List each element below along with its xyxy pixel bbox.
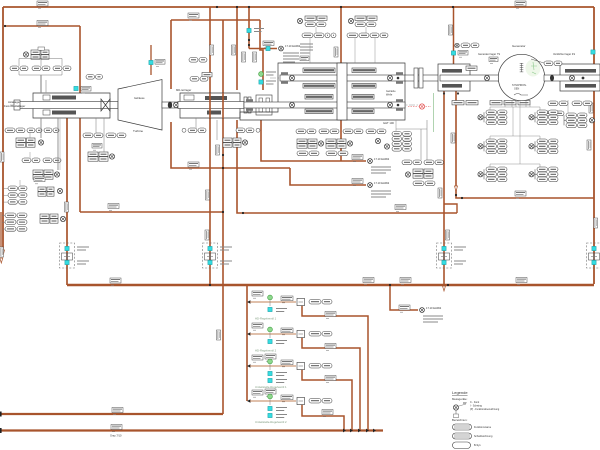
box cluster	[88, 152, 108, 161]
measuring point	[38, 140, 43, 145]
bus end tick	[0, 412, 2, 417]
pill pair (stack)	[5, 213, 27, 218]
immersion probe (green)	[259, 72, 264, 77]
svg-text:Verdichter lager 4S: Verdichter lager 4S	[553, 52, 575, 56]
pill pair (column stack)	[392, 137, 412, 142]
wire (vertical x260 with jog)	[260, 20, 263, 90]
generator top lead	[531, 59, 544, 63]
wire (turbine casing sensor)	[150, 45, 152, 75]
annotation: Tauchfuehler	[266, 72, 276, 75]
bearing bar	[259, 98, 263, 112]
svg-text:17.10 EH092: 17.10 EH092	[374, 157, 390, 161]
bearing pad (upper)	[205, 96, 227, 100]
svg-text:Turbine: Turbine	[133, 129, 143, 133]
junction	[242, 212, 244, 214]
svg-text:Welle: Welle	[386, 94, 393, 97]
pill pair row	[325, 33, 336, 38]
control valve unit 4 servo valve (green)	[268, 394, 273, 399]
valve solenoid converter (cyan)	[442, 246, 446, 250]
off-page arrow (x456)	[455, 186, 458, 192]
bearing hatch	[396, 108, 403, 111]
pill pair	[544, 61, 562, 66]
annotation	[276, 380, 287, 383]
wire label	[399, 305, 410, 312]
wire label (y430 bus)	[111, 425, 122, 432]
hydraulic valve assembly 1	[60, 243, 75, 268]
wire (vertical x210 valve spine)	[209, 7, 211, 285]
pill pair	[106, 133, 126, 138]
legend pill (double line)	[453, 424, 472, 430]
coupling hub	[168, 102, 172, 109]
wire label (valve 4 branch)	[322, 410, 333, 417]
coupling (bowtie)	[101, 99, 110, 111]
pill pair (mid bearing top)	[189, 58, 207, 63]
control valve unit 2 transducer pills	[309, 331, 332, 336]
control valve unit 1 servo valve (green)	[268, 295, 273, 300]
wire (vertical x341 lower)	[340, 120, 342, 161]
shaft (left end)	[15, 102, 118, 109]
annotation text	[371, 191, 391, 197]
sensor cluster (gen row2 c2)	[535, 139, 558, 154]
junction	[248, 6, 250, 8]
pill pair	[548, 101, 568, 106]
hydraulic valve assembly 4	[587, 243, 600, 268]
gearbox upper shaft	[280, 75, 405, 81]
svg-text:Legende: Legende	[452, 390, 468, 395]
sensor label box	[518, 101, 530, 105]
wire label (rotated left edge)	[0, 247, 4, 257]
sensor cluster (gen row3 c1)	[484, 167, 507, 182]
valve 2 signal bracket	[302, 337, 360, 430]
cluster tree lines	[19, 59, 62, 76]
bus arrow	[350, 429, 353, 433]
control valve unit 3 positioner box	[297, 362, 305, 369]
wire label (main bus)	[363, 278, 374, 285]
wire label (rotated right edge)	[594, 218, 598, 228]
bearing bar	[266, 98, 270, 112]
converter label	[458, 51, 468, 58]
junction	[452, 6, 454, 8]
coupling measuring point (exciter side)	[569, 75, 574, 80]
wire label (rotated)	[449, 25, 453, 35]
pill pair	[190, 77, 208, 82]
bearing pad	[565, 69, 596, 73]
measuring point	[242, 140, 247, 145]
wire label	[352, 155, 363, 162]
sensor cluster (gen row1 c2)	[535, 110, 558, 125]
branch wire (control valve unit 2)	[250, 333, 296, 335]
wire (horizontal y212 left)	[80, 211, 223, 213]
wire (left vertical)	[2, 7, 4, 250]
bus wire (horizontal y430)	[0, 429, 383, 431]
transducer pill pair (top-left row)	[53, 66, 71, 71]
pill pair	[326, 151, 348, 156]
cluster tree lines	[490, 100, 568, 167]
wire label	[108, 204, 119, 211]
converter (cyan)	[247, 28, 251, 32]
cluster leads	[96, 118, 104, 152]
junction	[222, 211, 224, 213]
measuring point	[529, 115, 534, 120]
wire label	[188, 162, 199, 169]
shaft centerline (LP)	[10, 104, 420, 106]
wire label (valve 1 branch)	[325, 312, 336, 319]
bearing hatch	[396, 81, 403, 84]
bearing detail box	[43, 95, 50, 100]
measuring point	[347, 141, 352, 146]
wire (vertical x237 lower / horizontal y213)	[237, 120, 457, 213]
bearing hatch	[246, 108, 253, 111]
wire label	[352, 179, 363, 186]
legend MP leads	[454, 404, 467, 418]
wire label (rotated x444)	[446, 230, 450, 240]
wire (jog x457)	[444, 204, 457, 213]
main signal bus (horizontal y285)	[67, 284, 594, 286]
small label	[300, 56, 309, 63]
measuring point callout 0	[279, 46, 284, 51]
shaft centerline (HP/generator)	[270, 77, 600, 79]
wire label (control valve unit 4)	[252, 390, 263, 397]
converter label	[155, 60, 165, 67]
wire label	[515, 191, 526, 198]
pill pair	[305, 22, 326, 27]
turbine shaft	[162, 102, 178, 108]
wire label (rotated x594)	[589, 103, 593, 113]
shaft key	[397, 104, 400, 107]
converter (cyan)	[266, 46, 270, 50]
wire overlay (x210 across housing)	[209, 93, 211, 118]
generator base mark	[514, 94, 528, 96]
wire label (rotated)	[242, 52, 246, 62]
annotation text	[423, 316, 443, 322]
svg-text:B-Sys: B-Sys	[474, 444, 481, 447]
control valve unit 2 servo valve (green)	[268, 327, 273, 332]
transducer pill pair (top-left row)	[32, 66, 50, 71]
annotation	[254, 29, 264, 32]
annotation	[276, 408, 287, 411]
bearing pad (lower)	[52, 111, 76, 115]
converter (cyan)	[74, 86, 78, 90]
wire label (top bus right)	[515, 1, 526, 8]
sensor label box	[504, 101, 516, 105]
annotation	[276, 309, 287, 312]
legend pill (triple line)	[453, 433, 472, 439]
box cluster	[40, 214, 58, 223]
gear element	[303, 68, 335, 73]
svg-text:HD-Regelventil 2: HD-Regelventil 2	[255, 349, 277, 353]
bearing detail box	[43, 110, 50, 115]
sensor cluster (gen row3 c2)	[535, 167, 558, 182]
measuring point	[109, 154, 114, 159]
wire (vertical x456 / horizontal y198)	[456, 91, 594, 198]
junction	[457, 92, 459, 94]
pill pair (stack)	[8, 193, 27, 198]
cluster leads	[196, 118, 217, 140]
wire label	[188, 13, 199, 20]
converter label	[81, 87, 91, 94]
gear element	[305, 109, 333, 114]
wire (vertical x249)	[248, 7, 250, 49]
pill pair	[5, 128, 25, 133]
annotation	[276, 341, 287, 344]
svg-text:Schaltzeichnung: Schaltzeichnung	[474, 435, 493, 438]
cluster leads	[20, 118, 60, 186]
junction	[222, 154, 224, 156]
junction	[248, 39, 250, 41]
junction	[461, 197, 463, 199]
measuring point	[375, 138, 380, 143]
pill pair row	[347, 33, 369, 38]
junction	[447, 284, 449, 286]
small circle	[256, 128, 260, 132]
wire (vertical x80)	[79, 26, 81, 212]
sensor label box	[466, 101, 478, 105]
mid bearing housing	[180, 93, 240, 118]
measuring point	[23, 52, 28, 57]
sensor box	[466, 66, 477, 70]
box cluster	[16, 138, 35, 147]
bearing pad	[565, 84, 596, 88]
shaft through bearing A	[440, 75, 500, 81]
valve solenoid converter (cyan)	[208, 246, 212, 250]
bus arrow	[358, 429, 361, 433]
annotation	[276, 415, 287, 418]
svg-text:17.10 EH092: 17.10 EH092	[426, 306, 442, 310]
pill pair (stack)	[8, 200, 27, 205]
pill pair row	[370, 33, 388, 38]
box cluster	[305, 16, 327, 20]
measuring point	[478, 115, 483, 120]
coupling flange	[414, 68, 418, 88]
wire label	[265, 354, 276, 361]
coupling flange	[419, 68, 423, 88]
shaft end cap	[14, 100, 20, 110]
wire label (rotated x456)	[451, 133, 455, 143]
gear element	[352, 68, 376, 73]
gearbox input measuring point (upper)	[289, 75, 294, 80]
thrust bearing housing	[33, 93, 110, 118]
gear element	[352, 109, 374, 114]
converter (cyan)	[591, 50, 595, 54]
sensor cluster (gen row1 c1)	[484, 110, 507, 125]
wire label (rotated, x223)	[217, 330, 221, 340]
shaft key	[582, 77, 585, 80]
junction	[455, 194, 457, 196]
pill pair	[424, 160, 444, 165]
valve stem	[269, 400, 271, 406]
signal bus wire (top horizontal)	[3, 6, 594, 8]
converter (cyan)	[259, 80, 263, 84]
pill pair (column stack)	[392, 132, 412, 137]
pill pair (gearbox bottom row)	[319, 129, 339, 134]
svg-text:Generator lager 7S: Generator lager 7S	[478, 52, 500, 56]
gear element	[303, 84, 335, 89]
wire overlay (x223 across housing)	[222, 93, 224, 118]
bearing pad (upper)	[52, 96, 76, 100]
bus arrow	[343, 429, 346, 433]
wire label	[281, 360, 293, 367]
measuring point	[60, 216, 65, 221]
control valve unit 3 tap	[247, 364, 251, 368]
wire label (rotated, x210)	[205, 230, 209, 240]
bearing hatch	[246, 99, 253, 102]
generator bearing housing A	[438, 64, 470, 91]
wire label (rotated)	[210, 45, 214, 55]
converter (cyan)	[268, 307, 272, 311]
sensor label box	[490, 101, 502, 105]
wire label (control valve unit 1)	[252, 291, 263, 298]
pill pair (generator top)	[461, 43, 479, 48]
coupling measuring point	[173, 102, 178, 107]
junction	[222, 167, 224, 169]
generator G1	[498, 54, 544, 100]
pill pair	[402, 160, 422, 165]
generator winding symbol	[520, 63, 524, 72]
generator excitation zone (green tint)	[526, 60, 541, 77]
wire label (rotated x67)	[65, 202, 69, 212]
bearing hatch	[396, 72, 403, 75]
shaft through bearing B	[544, 75, 600, 81]
gearbox lower shaft	[244, 102, 405, 108]
pill pair	[43, 158, 61, 163]
pill pair (gearbox bottom row)	[366, 129, 386, 134]
pill pair (stack)	[5, 227, 27, 232]
valve annotation	[77, 247, 89, 250]
converter label	[263, 41, 274, 48]
measuring point (gearbox top 1)	[297, 18, 302, 23]
svg-text:Gehäuse: Gehäuse	[134, 96, 145, 100]
gear element	[352, 95, 374, 100]
small circle	[182, 128, 186, 132]
annotation: Lager- und Schwingstellen Fernmessung	[283, 53, 299, 62]
control valve unit 4 transducer pills	[309, 398, 332, 403]
wire label (rotated left edge)	[0, 152, 4, 162]
wire label	[281, 328, 293, 335]
shaft key	[397, 77, 400, 80]
wire (vertical x67, bearing signal)	[66, 118, 68, 285]
wire label (valve 3 branch)	[325, 376, 336, 383]
sensor box cluster (top left)	[31, 50, 49, 59]
wire (vertical x341 upper gearbox feed)	[340, 7, 342, 63]
wire (vertical x453 generator feed)	[453, 7, 455, 64]
wire label (top bus left)	[37, 1, 48, 8]
measuring point	[384, 144, 389, 149]
sensor label	[92, 144, 102, 151]
valve stem	[269, 333, 271, 339]
svg-text:(P) - Funktionsbezeichnung: (P) - Funktionsbezeichnung	[470, 408, 500, 411]
hydraulic valve assembly 2	[203, 243, 218, 268]
sensor label	[34, 177, 45, 184]
measuring point	[405, 172, 410, 177]
gear element	[305, 95, 333, 100]
pill pair	[413, 181, 435, 186]
branch wire (control valve unit 3)	[250, 365, 296, 367]
measuring point callout 1	[368, 159, 373, 164]
junction	[443, 92, 445, 94]
converter (cyan)	[268, 413, 272, 417]
wire label (control valve unit 3)	[252, 355, 263, 362]
cluster leads	[310, 27, 375, 63]
svg-text:Fest-/Radiallager: Fest-/Radiallager	[4, 104, 25, 108]
cluster header box	[38, 47, 45, 50]
wire (long vertical x223)	[222, 20, 224, 414]
wire (horizontal y20)	[171, 19, 260, 21]
bearing block	[256, 95, 272, 115]
svg-text:Umleitstelle-Regelventil 1: Umleitstelle-Regelventil 1	[255, 385, 287, 389]
bracket lines	[4, 189, 9, 203]
branch wire (control valve unit 1)	[250, 301, 296, 303]
valve solenoid converter (cyan)	[65, 246, 69, 250]
valve annotation	[77, 261, 89, 264]
svg-text:MP: MP	[463, 402, 467, 405]
coupling flange	[244, 97, 247, 113]
gearbox measuring point (lower right)	[387, 102, 392, 107]
converter (cyan)	[268, 378, 272, 382]
measuring point callout 3	[420, 308, 425, 313]
wire label (y414 bus)	[112, 408, 123, 415]
annotation	[276, 373, 287, 376]
svg-text:Bezeichnun:: Bezeichnun:	[452, 418, 468, 422]
bus arrow	[366, 429, 369, 433]
annotation text	[371, 167, 391, 173]
earthing brush (red)	[408, 104, 431, 109]
wire (second left horizontal)	[5, 25, 80, 27]
junction	[209, 284, 211, 286]
valve annotation	[454, 247, 466, 250]
measuring point	[529, 172, 534, 177]
measuring point	[57, 188, 62, 193]
gearbox casing	[240, 63, 405, 120]
measuring point	[478, 172, 483, 177]
wire (vertical x171 lower to y168)	[171, 122, 290, 168]
wire label (main bus)	[110, 278, 121, 285]
wire label (main bus)	[516, 278, 527, 285]
coupling measuring point (generator)	[484, 75, 489, 80]
wire label	[281, 395, 293, 402]
bearing detail box	[184, 95, 194, 100]
bracket lines	[2, 216, 5, 230]
turbine casing (cone)	[118, 80, 162, 131]
control valve unit 4 positioner box	[297, 397, 305, 404]
junction	[4, 25, 6, 27]
measuring point	[529, 144, 534, 149]
bus arrow	[373, 429, 376, 433]
valve stem	[269, 365, 271, 371]
measuring point callout 2	[368, 183, 373, 188]
wire (vertical x171 upper)	[170, 20, 172, 89]
small label	[489, 57, 498, 64]
box cluster	[326, 139, 346, 148]
off-page arrow	[443, 286, 446, 291]
gear element	[352, 84, 376, 89]
measuring point (gearbox top 2)	[348, 18, 353, 23]
converter (cyan)	[268, 406, 272, 410]
box cluster	[297, 139, 317, 148]
wire label (main bus)	[400, 278, 411, 285]
junction	[248, 44, 250, 46]
svg-text:Gray 7/10: Gray 7/10	[110, 434, 122, 438]
wire (vertical x444)	[443, 91, 445, 284]
sensor cluster (gen row2 c1)	[484, 139, 507, 154]
control valve unit 4 tap	[247, 399, 251, 403]
junction	[236, 6, 238, 8]
valve annotation	[220, 247, 232, 250]
tree line	[396, 128, 427, 130]
gearbox output measuring point (upper)	[387, 75, 392, 80]
valve solenoid converter (cyan)	[592, 246, 596, 250]
transducer pill pair	[86, 75, 103, 80]
generator phase mark (green)	[531, 62, 537, 74]
